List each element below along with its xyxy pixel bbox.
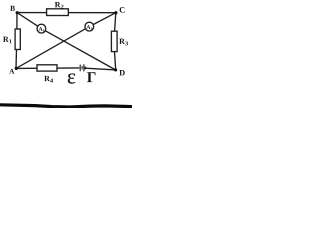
wire bottom rail A to battery [16,67,79,70]
battery cell short thick plate [84,67,86,70]
resistor R1 [15,29,20,50]
wire battery to D [86,68,116,70]
ammeter A1 [37,24,46,33]
resistor R3 [111,31,117,51]
label R3 [119,39,128,46]
battery cell short plate [81,66,83,70]
battery cell long plate left [79,65,81,72]
wire top rail B to C [17,12,116,14]
label R4 [44,76,53,83]
label R1 [3,37,12,44]
node B [16,11,19,14]
node D [114,68,117,71]
resistor R4 [37,65,57,71]
label R2 [55,2,64,9]
wire diagonal B to D [17,13,116,70]
bottom border bar [0,105,132,107]
label A [9,69,14,74]
battery cell long plate right [83,64,85,71]
label D [119,70,124,75]
label C [120,7,125,13]
label B [10,6,15,11]
wire left rail B to A [16,13,17,69]
node C [114,11,117,14]
resistor R2 [47,9,69,16]
wire right rail C to D [115,13,116,70]
wire diagonal A to C [16,13,116,69]
node A [15,67,18,70]
label Gamma (internal resistance) [87,72,95,82]
label epsilon (emf) [68,74,75,84]
ammeter A2 [85,22,94,31]
